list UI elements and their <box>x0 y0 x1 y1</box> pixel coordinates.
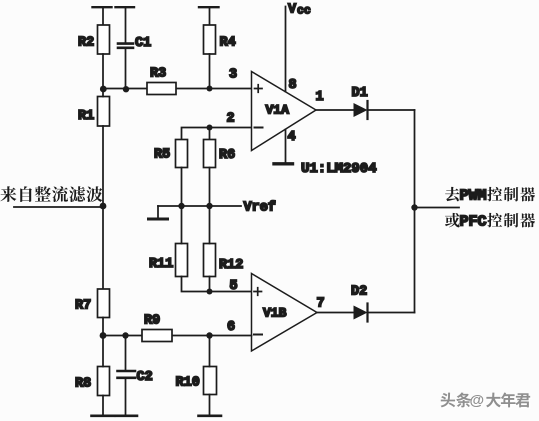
ground (R8) <box>92 414 115 417</box>
svg-text:Vref: Vref <box>244 201 276 216</box>
svg-text:R6: R6 <box>219 148 235 163</box>
resistor R7 <box>75 289 110 318</box>
node junction R4 bottom <box>207 86 213 92</box>
svg-text:R9: R9 <box>144 314 160 329</box>
diode D1 <box>352 86 368 119</box>
wire R7 bottom to node <box>102 318 104 336</box>
op-amp U1B (V1B) <box>252 274 318 352</box>
svg-text:R7: R7 <box>75 299 91 314</box>
svg-text:R8: R8 <box>75 377 91 392</box>
svg-text:7: 7 <box>317 297 325 312</box>
ground (mid reference) <box>149 206 168 219</box>
capacitor C2 <box>118 370 153 385</box>
wire V1B output to D2 <box>317 312 354 314</box>
wire right rail (output bus) <box>414 110 416 313</box>
node junction C1 bottom <box>123 86 129 92</box>
wire input lead (underline) <box>14 206 103 208</box>
op-amp U1A (V1A) <box>252 72 317 151</box>
label Vcc <box>288 3 311 18</box>
label input net 来自整流滤波 <box>0 186 102 202</box>
capacitor C1 <box>118 36 151 51</box>
wire pin2 net (R5/R6 tops to op-amp -) <box>182 128 252 140</box>
svg-text:R1: R1 <box>78 109 94 124</box>
svg-text:V1A: V1A <box>266 103 290 118</box>
wire pin 4 (gnd) <box>285 130 287 163</box>
wire R6 bottom to mid node <box>209 168 211 207</box>
wire pin3 net (left rail to op-amp +) <box>103 88 252 90</box>
supply T-bar above C1 <box>116 6 135 8</box>
node junction input/left rail <box>100 203 107 210</box>
svg-text:R12: R12 <box>219 258 243 273</box>
resistor R10 <box>176 367 217 395</box>
node junction output <box>411 204 417 210</box>
wire R2 bottom to node <box>102 54 104 89</box>
diode D2 <box>351 285 368 322</box>
node junction R10 top <box>206 332 212 338</box>
supply T-bar above R2 <box>93 6 112 8</box>
svg-text:R4: R4 <box>220 36 236 51</box>
wire pin6 net (node to op-amp -) <box>103 335 252 337</box>
svg-text:5: 5 <box>230 279 238 294</box>
ground (pin 4) <box>274 162 293 165</box>
svg-text:D1: D1 <box>352 86 368 101</box>
wire R11 top lead <box>181 206 183 244</box>
node junction R12 bottom <box>207 289 213 295</box>
svg-text:U1:LM2904: U1:LM2904 <box>301 161 377 177</box>
wire R10 bottom lead <box>209 395 211 416</box>
resistor R12 <box>204 244 244 277</box>
svg-text:R3: R3 <box>150 67 166 82</box>
svg-text:6: 6 <box>227 320 235 335</box>
resistor R11 <box>149 244 188 277</box>
node junction R6 top <box>207 125 213 131</box>
node junction R5/R11 <box>178 203 184 209</box>
resistor R5 <box>154 140 188 168</box>
svg-text:C2: C2 <box>137 370 153 385</box>
label output net 去PWM控制器 <box>445 187 535 205</box>
svg-text:cc: cc <box>297 5 311 18</box>
wire pin 8 (Vcc) <box>285 7 287 92</box>
wire C1 bottom lead <box>125 49 127 89</box>
resistor R1 <box>78 97 110 127</box>
svg-text:V: V <box>288 3 297 18</box>
svg-text:D2: D2 <box>351 285 367 300</box>
wire R8 bottom lead <box>102 396 104 416</box>
wire R12 top lead <box>209 206 211 244</box>
svg-text:C1: C1 <box>135 36 151 51</box>
svg-text:@: @ <box>470 392 485 409</box>
wire pin5 net (R11/R12 bottoms to op-amp +) <box>182 277 252 292</box>
wire C2 top lead <box>125 336 127 371</box>
svg-text:PWM: PWM <box>460 188 487 205</box>
svg-text:V1B: V1B <box>263 306 287 321</box>
wire D2 to right rail <box>368 312 415 314</box>
wire R4 bottom to pin3 net <box>209 54 211 89</box>
ground (R10) <box>199 414 222 417</box>
wire R10 top lead <box>209 336 211 367</box>
svg-text:PFC: PFC <box>460 214 487 231</box>
resistor R8 <box>75 367 110 396</box>
wire D1 to right rail <box>368 109 415 111</box>
supply T-bar above R4 <box>199 6 219 8</box>
wire C2 bottom lead <box>125 379 127 415</box>
resistor R9 <box>142 314 172 342</box>
wire output stub <box>415 207 460 209</box>
svg-text:R5: R5 <box>154 148 170 163</box>
svg-text:R11: R11 <box>149 257 173 272</box>
svg-text:R10: R10 <box>176 376 200 391</box>
node junction C2 top <box>122 332 128 338</box>
ground (C2) <box>116 414 137 417</box>
watermark 头条@大年君 <box>442 393 532 410</box>
wire R4 top lead <box>209 7 211 25</box>
wire R1 top lead <box>102 89 104 97</box>
label output net 或PFC控制器 <box>445 213 535 231</box>
wire V1A output to D1 <box>316 109 354 111</box>
svg-text:3: 3 <box>229 68 237 83</box>
svg-text:8: 8 <box>289 78 297 93</box>
node junction R6/R12 <box>206 203 212 209</box>
wire mid node rail <box>158 205 241 207</box>
resistor R4 <box>204 25 236 54</box>
svg-text:2: 2 <box>227 112 235 127</box>
svg-text:1: 1 <box>316 90 324 105</box>
wire R8 top lead <box>102 336 104 367</box>
svg-text:4: 4 <box>288 130 296 145</box>
wire R2 top lead <box>102 7 104 25</box>
resistor R2 <box>78 25 110 54</box>
resistor R3 <box>147 67 176 95</box>
resistor R6 <box>204 140 236 168</box>
node junction R2/C1/R3 <box>100 86 107 93</box>
wire left rail R1 to R7 <box>102 126 104 289</box>
svg-text:R2: R2 <box>78 36 94 51</box>
wire C1 top lead <box>125 7 127 43</box>
wire R5 bottom to mid node <box>181 168 183 207</box>
node junction R7/R8/C2 <box>100 332 107 339</box>
